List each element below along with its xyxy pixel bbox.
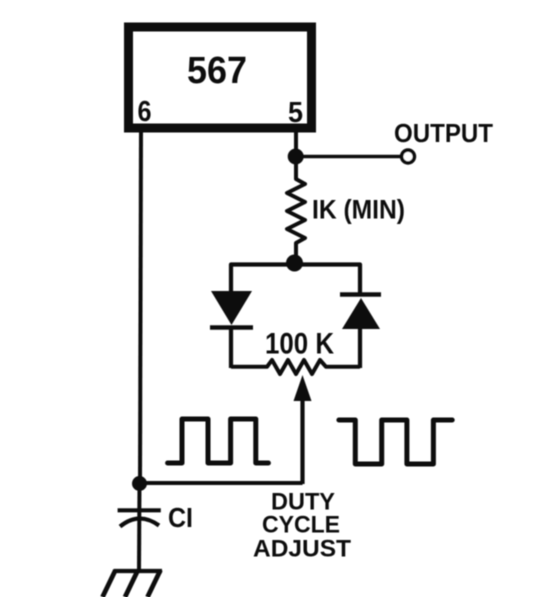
svg-text:CYCLE: CYCLE	[262, 512, 340, 539]
potentiometer R2 100K body	[231, 360, 360, 374]
svg-text:567: 567	[187, 50, 247, 92]
diode D1 (cathode down)	[210, 291, 253, 368]
node junction at C1	[132, 476, 147, 491]
wire C1 lead through to ground	[137, 483, 142, 570]
IC U1 567	[129, 27, 312, 128]
wire pin6 vertical	[140, 131, 141, 484]
label OUTPUT	[394, 118, 493, 148]
wire top of diode loop	[231, 265, 360, 295]
label 100 K	[265, 328, 334, 361]
waveform right (pulses down)	[339, 420, 452, 464]
label C1	[168, 502, 193, 533]
wire junction to output terminal	[296, 155, 400, 159]
svg-text:CI: CI	[168, 502, 193, 533]
label DUTY CYCLE ADJUST	[253, 489, 351, 563]
output terminal circle	[402, 150, 415, 163]
resistor R1 1K (MIN)	[287, 164, 305, 256]
wire pin5 to junction	[294, 131, 298, 157]
svg-text:5: 5	[288, 97, 303, 129]
svg-text:6: 6	[138, 96, 152, 128]
potentiometer wiper arrow	[294, 375, 312, 484]
ground	[103, 570, 163, 597]
waveform left (pulses up)	[168, 419, 269, 463]
pin 5 label	[288, 97, 303, 129]
pin 6 label	[138, 96, 152, 128]
svg-text:OUTPUT: OUTPUT	[394, 118, 493, 148]
capacitor C1 plates	[118, 510, 161, 526]
node junction at pin5/output	[288, 149, 304, 165]
svg-text:IK (MIN): IK (MIN)	[312, 195, 405, 225]
svg-text:100 K: 100 K	[265, 328, 334, 361]
wire bottom horizontal to wiper	[140, 481, 303, 485]
diode D2 (cathode up)	[340, 295, 381, 369]
label 1K (MIN)	[312, 195, 405, 225]
svg-text:ADJUST: ADJUST	[253, 536, 351, 563]
node junction below resistor	[286, 255, 303, 272]
